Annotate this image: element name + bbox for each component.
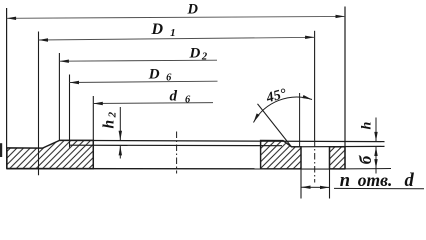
- extension line / left flange edge (D): [6, 8, 8, 169]
- svg-text:D6: D6: [148, 66, 172, 83]
- dimension d6 line (broken past axis): [93, 102, 213, 105]
- flange section: right outer hatched block: [330, 147, 346, 169]
- extension line D1 right / bolt hole axis upper part: [314, 31, 316, 140]
- dimension h2 lower leg with up arrow: [119, 146, 121, 159]
- annotation shelf line under "n otv. d": [334, 187, 424, 189]
- extension line D6 left: [69, 75, 71, 148]
- svg-text:отв.: отв.: [358, 170, 393, 190]
- scan smudge left edge: [0, 143, 2, 157]
- extension line d6 left / bore wall: [92, 96, 94, 169]
- flange bottom surface line: [7, 168, 345, 170]
- dimension h leg with down arrow: [375, 118, 377, 142]
- arc arrowhead left (tangent): [252, 113, 260, 123]
- dimension D6 line (broken past axis): [70, 81, 218, 82]
- bottom surface extension line (right, for b dimension): [345, 168, 391, 170]
- svg-text:б: б: [356, 154, 375, 164]
- extension line / right flange edge (D): [344, 7, 346, 169]
- extension line D2 left: [58, 53, 60, 140]
- raised-face top line (object edge + extension line for h): [60, 140, 385, 141]
- svg-text:d: d: [405, 171, 415, 191]
- svg-text:45°: 45°: [264, 86, 289, 107]
- chamfer leader line (45 deg): [258, 104, 292, 147]
- flange section: left outer hatched block: [7, 140, 93, 168]
- bolt hole left wall + extension for d: [300, 147, 302, 199]
- dimension D2 line (broken past axis): [59, 60, 217, 61]
- svg-text:h: h: [359, 122, 374, 130]
- flange top surface right of chamfer (+ extension for b): [292, 145, 385, 147]
- dimension d line with outward arrows: [301, 186, 330, 188]
- dimension D1 line: [39, 37, 315, 40]
- svg-text:n: n: [340, 171, 350, 191]
- flange section: inner-right hatched block (between bore and bolt hole): [261, 141, 301, 169]
- svg-text:D1: D1: [151, 21, 176, 39]
- chamfer ext. line (45 deg. vertex vertical): [299, 93, 301, 147]
- extension line D1 left (through flange): [38, 32, 40, 176]
- dimension b vertical line with arrows: [375, 147, 377, 174]
- flange axis centerline (dash-dot): [176, 132, 178, 174]
- bolt hole axis centerline (dash-dot): [314, 140, 316, 183]
- dimension D line: [7, 16, 345, 18]
- svg-text:D: D: [187, 2, 199, 18]
- svg-text:D2: D2: [189, 45, 208, 62]
- 45 deg dimension arc: [254, 97, 313, 122]
- bolt hole right wall + extension for d: [329, 147, 331, 199]
- raised-face bottom line (groove edge): [70, 144, 283, 147]
- dimension h2 upper leg with down arrow: [119, 107, 121, 140]
- arc arrowhead right: [302, 95, 312, 101]
- svg-text:h2: h2: [101, 111, 119, 128]
